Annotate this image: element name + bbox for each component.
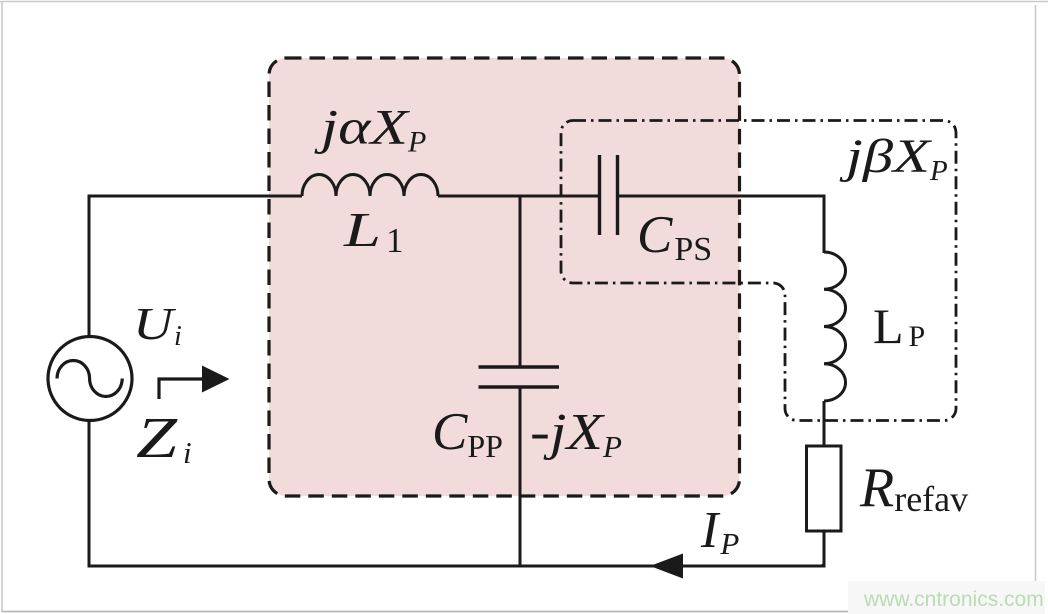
frame border bottom [2, 611, 1036, 613]
wire: resistor to bottom-right corner [822, 531, 824, 566]
label IP [700, 502, 739, 561]
svg-text:Rrefav: Rrefav [859, 457, 968, 519]
label jaXP [314, 99, 427, 159]
watermark background strip [848, 581, 1045, 614]
wire: top-left horizontal segment [88, 195, 303, 198]
label -jXP [530, 404, 622, 464]
label CPS [637, 206, 712, 268]
svg-text:LP: LP [873, 298, 925, 354]
impedance arrow Zi (L-shaped with arrowhead) [159, 366, 230, 400]
inductor L1 (4 humps) [302, 174, 438, 196]
capacitor CPP (shunt, horizontal plates) [479, 367, 560, 387]
frame border left [1, 1, 3, 612]
wire: right vertical into LP [823, 195, 826, 254]
capacitor CPP top lead wire [519, 196, 522, 367]
svg-text:www.cntronics.com: www.cntronics.com [863, 588, 1044, 611]
svg-text:jβXP: jβXP [838, 130, 947, 187]
wire: top-middle horizontal segment [438, 195, 599, 198]
label L1 [343, 202, 404, 260]
capacitor CPS (series, vertical plates) [600, 155, 618, 235]
label CPP [432, 403, 503, 464]
label Zi [136, 405, 192, 470]
label LP [873, 298, 925, 354]
watermark text www.cntronics.com [863, 588, 1044, 611]
wire: LP to resistor [823, 401, 826, 446]
wire: bottom-left vertical up to source [88, 420, 91, 568]
wire: top-right horizontal segment [618, 195, 825, 198]
dash-dot region jBXP (step-shaped box) [561, 121, 956, 421]
capacitor CPP bottom lead wire [519, 387, 522, 566]
svg-text:Ui: Ui [133, 299, 182, 352]
svg-text:Zi: Zi [136, 405, 192, 470]
label Rrefav [859, 457, 968, 519]
wire: bottom horizontal segment [88, 565, 826, 568]
wire: source top to top-left corner [88, 195, 91, 338]
current arrowhead IP (points left) [650, 554, 683, 579]
inductor LP (4 humps, bulge right) [824, 252, 846, 401]
frame border right [1035, 5, 1037, 608]
svg-text:IP: IP [700, 502, 739, 561]
AC voltage source Ui (circle with sine) [48, 337, 132, 421]
frame border top [0, 1, 1048, 3]
shaded matching-network region (pink dashed box) [269, 58, 740, 496]
label Ui [133, 299, 182, 352]
label jBXP [838, 130, 947, 187]
resistor Rrefav (rectangle) [807, 446, 842, 531]
